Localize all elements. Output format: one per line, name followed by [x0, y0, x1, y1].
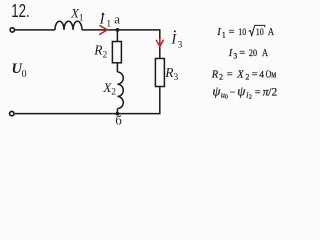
- terminal bottom-left: [10, 111, 14, 115]
- svg-text:I: I: [216, 27, 221, 38]
- svg-text:А: А: [262, 48, 268, 59]
- inductor X2: [117, 72, 123, 109]
- wire X2 to node b: [116, 109, 118, 114]
- svg-text:1: 1: [222, 30, 226, 39]
- svg-text:ψ: ψ: [237, 83, 246, 98]
- svg-text:=: =: [229, 27, 235, 38]
- svg-text:2: 2: [219, 73, 223, 82]
- svg-text:3: 3: [174, 73, 179, 83]
- svg-text:=: =: [255, 87, 261, 98]
- label X2: [102, 80, 116, 98]
- label U0: [12, 61, 27, 80]
- wire R3 bottom + bottom rail: [15, 87, 160, 114]
- current arrow I3: [156, 38, 164, 46]
- wire top-left segment: [15, 29, 55, 31]
- svg-text:−: −: [230, 87, 236, 98]
- svg-text:4: 4: [259, 70, 264, 80]
- svg-text:I: I: [228, 48, 233, 59]
- svg-text:А: А: [268, 27, 275, 38]
- terminal top-left: [10, 28, 14, 32]
- svg-text:0: 0: [225, 94, 228, 101]
- svg-text:=: =: [252, 69, 258, 80]
- svg-text:2: 2: [249, 94, 252, 101]
- label X1: [70, 6, 84, 24]
- svg-text:Ом: Ом: [266, 69, 277, 80]
- label R2: [93, 43, 107, 61]
- given: I1 = 10 sqrt(10) A: [211, 25, 278, 100]
- svg-text:2: 2: [245, 73, 249, 82]
- label I3 (dotted): [170, 30, 182, 50]
- wire node a to R2: [116, 30, 118, 42]
- node b (б) junction: [116, 112, 120, 116]
- svg-text:/2: /2: [268, 86, 277, 98]
- svg-text:12.: 12.: [11, 1, 30, 21]
- svg-text:1: 1: [106, 20, 111, 30]
- svg-text:10: 10: [238, 28, 246, 38]
- node a: [116, 28, 120, 32]
- svg-text:X: X: [236, 69, 244, 80]
- svg-text:20: 20: [249, 49, 257, 59]
- svg-text:б: б: [115, 113, 122, 128]
- wire R2 to X2: [116, 63, 118, 72]
- resistor R3: [155, 59, 164, 87]
- svg-text:a: a: [114, 11, 120, 26]
- svg-text:2: 2: [103, 51, 108, 61]
- svg-text:R: R: [211, 69, 219, 80]
- wire top middle to corner and down to R3: [82, 30, 160, 59]
- svg-text:=: =: [239, 48, 245, 59]
- svg-text:0: 0: [22, 69, 27, 80]
- resistor R2: [112, 42, 121, 63]
- svg-text:3: 3: [233, 52, 237, 61]
- label I1 (dotted): [99, 12, 112, 30]
- svg-text:=: =: [227, 69, 233, 80]
- current arrow I1: [99, 25, 107, 34]
- svg-text:2: 2: [111, 88, 116, 98]
- svg-text:10: 10: [256, 28, 264, 38]
- svg-text:1: 1: [79, 13, 84, 23]
- inductor X1: [55, 21, 82, 30]
- label R3: [164, 65, 178, 83]
- svg-text:3: 3: [178, 41, 183, 51]
